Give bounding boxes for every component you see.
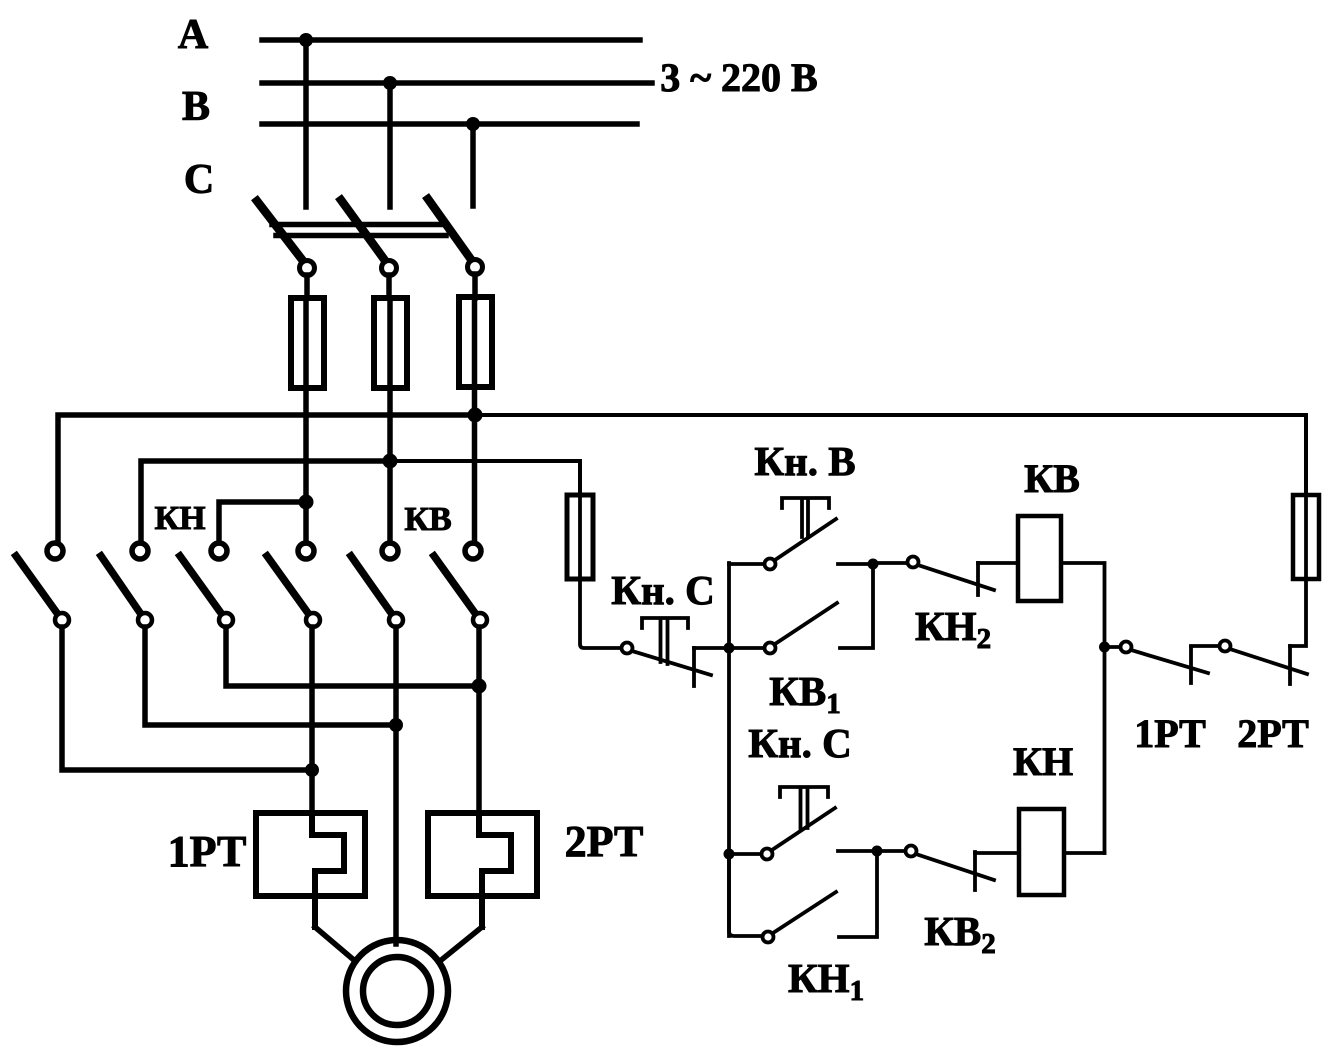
- wire KN1 left: [729, 854, 762, 936]
- svg-text:А: А: [178, 12, 209, 58]
- contact 2RT terminal: [1220, 641, 1231, 652]
- node rail-KV1: [724, 643, 735, 654]
- wire KV2 to KN coil: [975, 851, 1019, 855]
- wire KN2 to KV coil: [978, 561, 1018, 565]
- button Kn.V actuator: [782, 498, 829, 537]
- button Kn.V blade: [775, 519, 836, 560]
- wire KN2 left: [873, 561, 907, 565]
- wire switch to fuse 1: [304, 275, 310, 298]
- control fuse F5 wire through: [1304, 495, 1308, 579]
- svg-text:Кн. С: Кн. С: [748, 720, 851, 766]
- contact KV1 blade: [775, 603, 837, 644]
- node bus3 phaseA: [299, 495, 314, 510]
- contact KN-2 blade: [101, 556, 145, 620]
- fuse F2: [374, 298, 407, 388]
- control fuse F4 wire through: [580, 495, 621, 648]
- wire pivot6 down to 2RT: [476, 627, 482, 813]
- node tap B: [383, 76, 397, 90]
- node out3: [472, 679, 487, 694]
- wire 1RT to motor: [315, 927, 355, 961]
- switch QS blade 2: [341, 200, 389, 266]
- fuse F1 wire through: [303, 298, 309, 543]
- node right rail: [1099, 642, 1110, 653]
- svg-text:Кн. С: Кн. С: [611, 567, 714, 613]
- thermal heater 1RT element: [312, 813, 344, 927]
- wire 1RT to 2RT: [1191, 644, 1219, 648]
- control fuse F5: [1293, 495, 1319, 579]
- switch QS coupling bar: [272, 225, 446, 236]
- button Kn.V terminal: [765, 559, 776, 570]
- contact KV2 terminal: [906, 846, 917, 857]
- wire pivot4 down to 1RT: [309, 627, 315, 813]
- thermal heater 2RT element: [479, 813, 511, 927]
- wire drop B: [387, 83, 393, 207]
- svg-text:КВ1: КВ1: [769, 668, 841, 720]
- node KnV-KN2: [868, 559, 879, 570]
- wire bus2 left: [141, 461, 390, 543]
- svg-text:В: В: [182, 84, 210, 130]
- contact KV-3 blade: [434, 556, 480, 620]
- node out1: [305, 763, 319, 777]
- contact 1RT terminal: [1121, 642, 1132, 653]
- wire pivot2 down: [145, 627, 396, 725]
- contact KV-1 blade: [267, 556, 313, 620]
- wire bus2 right to control: [390, 461, 580, 495]
- contact KN1 blade: [773, 892, 836, 933]
- button Kn.C upper actuator: [642, 618, 688, 664]
- button Kn.C lower terminal: [762, 849, 773, 860]
- wire 2RT to fuse F5: [1290, 579, 1306, 646]
- switch QS pivot 3: [468, 260, 483, 275]
- node rail-KnC2: [724, 849, 735, 860]
- motor inner circle: [363, 957, 431, 1025]
- wire phase B busbar: [262, 80, 652, 86]
- contact KV-3 terminal: [465, 543, 481, 559]
- contact KN-3 pivot: [219, 613, 233, 627]
- wire KN1 right bracket: [839, 851, 877, 937]
- motor outer circle: [346, 940, 448, 1042]
- coil KV: [1018, 516, 1061, 601]
- wire to 1RT contact: [1105, 645, 1121, 649]
- wire phase A busbar: [262, 37, 640, 43]
- wire Kn.V left: [729, 562, 764, 566]
- node out2: [389, 718, 403, 732]
- node tap C: [466, 117, 480, 131]
- control fuse F4: [567, 495, 593, 579]
- wire Kn.V right: [838, 562, 873, 566]
- svg-text:КН2: КН2: [915, 603, 991, 655]
- button Kn.C upper blade: [632, 651, 711, 675]
- contact KV-3 pivot: [473, 613, 487, 627]
- wire KV coil right: [1061, 563, 1105, 853]
- wire bus3: [219, 502, 306, 543]
- wire bus1 right to control: [475, 415, 1306, 495]
- wire KV1 left: [734, 646, 764, 650]
- button Kn.C lower blade: [772, 808, 835, 850]
- wire vertical rail left: [727, 563, 731, 936]
- contact KN2 stop: [976, 563, 980, 595]
- node bus2 phaseB: [383, 454, 398, 469]
- contact KN2 terminal: [908, 557, 919, 568]
- contact KN-2 terminal: [132, 543, 148, 559]
- wire pivot5 down to motor: [393, 627, 399, 944]
- fuse F1: [291, 298, 324, 388]
- contact KN-2 pivot: [138, 613, 152, 627]
- contact KN1 terminal: [763, 932, 774, 943]
- switch QS pivot 2: [382, 261, 397, 276]
- switch QS pivot 1: [300, 261, 315, 276]
- wire switch to fuse 3: [472, 274, 478, 298]
- node tap A: [299, 33, 313, 47]
- contact 2RT blade: [1230, 649, 1307, 674]
- wire KV1 right bracket: [840, 564, 873, 648]
- contact KV-1 pivot: [306, 613, 320, 627]
- wire Kn.C to node1: [694, 646, 729, 650]
- contact KN-1 terminal: [47, 543, 63, 559]
- switch QS blade 1: [257, 201, 307, 266]
- thermal heater 2RT box: [428, 813, 537, 896]
- contact KN-3 terminal: [211, 543, 227, 559]
- svg-text:1РТ: 1РТ: [1134, 711, 1206, 756]
- contact KV2 blade: [916, 854, 994, 880]
- contact KV2 stop: [973, 852, 977, 890]
- svg-text:3 ~ 220 В: 3 ~ 220 В: [660, 55, 817, 100]
- contact KN-1 pivot: [55, 613, 69, 627]
- thermal heater 1RT box: [256, 813, 365, 896]
- wire drop C: [470, 124, 476, 206]
- contact KV-2 blade: [351, 556, 396, 620]
- wire pivot1 down: [62, 627, 312, 770]
- wire Kn.C lower right: [838, 849, 877, 853]
- svg-text:С: С: [184, 157, 214, 203]
- fuse F2 wire through: [387, 298, 393, 543]
- svg-text:КВ: КВ: [1024, 456, 1080, 501]
- wire phase C busbar: [262, 121, 637, 127]
- node bus1 phaseC: [468, 408, 483, 423]
- contact KV1 terminal: [765, 643, 776, 654]
- contact KV-2 terminal: [382, 543, 398, 559]
- contact 2RT stop: [1288, 646, 1292, 684]
- svg-text:КВ: КВ: [404, 501, 451, 538]
- svg-text:2РТ: 2РТ: [565, 817, 644, 866]
- coil KN: [1019, 809, 1064, 895]
- contact KV-2 pivot: [389, 613, 403, 627]
- button Kn.C upper terminal: [622, 643, 633, 654]
- wire pivot3 down: [226, 627, 480, 686]
- switch QS blade 3: [428, 199, 475, 265]
- wire switch to fuse 2: [386, 275, 392, 298]
- contact KN2 blade: [918, 565, 994, 590]
- contact 1RT stop: [1189, 647, 1193, 683]
- wire bus1 left: [58, 415, 475, 543]
- fuse F3: [459, 297, 492, 387]
- svg-text:КН: КН: [154, 500, 205, 537]
- svg-text:2РТ: 2РТ: [1237, 711, 1309, 756]
- svg-text:КВ2: КВ2: [924, 908, 996, 960]
- wire 2RT to motor: [440, 927, 482, 961]
- fuse F3 wire through: [472, 297, 478, 543]
- contact KN-3 blade: [180, 556, 226, 620]
- svg-text:1РТ: 1РТ: [168, 827, 247, 876]
- button Kn.C upper stop: [692, 648, 696, 686]
- wire KV2 left: [877, 849, 905, 853]
- contact KN-1 blade: [16, 556, 62, 620]
- wire KN coil right: [1064, 851, 1105, 855]
- button Kn.C lower actuator: [780, 787, 828, 828]
- svg-text:Кн. В: Кн. В: [754, 438, 855, 484]
- wire Kn.C lower left: [729, 852, 761, 856]
- wire drop A: [303, 40, 309, 207]
- node KnC2-KV2: [872, 846, 883, 857]
- contact KV-1 terminal: [298, 543, 314, 559]
- contact 1RT blade: [1131, 650, 1208, 673]
- svg-text:КН: КН: [1013, 739, 1073, 784]
- svg-text:КН1: КН1: [788, 955, 864, 1007]
